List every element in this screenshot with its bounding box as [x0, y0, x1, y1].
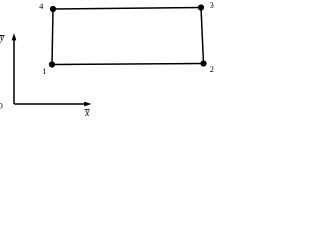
node 2 dot [200, 60, 206, 66]
node 4 dot [50, 6, 56, 12]
svg-text:2: 2 [210, 64, 214, 74]
y-bar overbar [0, 35, 5, 37]
svg-text:0: 0 [0, 100, 3, 110]
wire edge 3-2 (right) [201, 8, 204, 64]
x-bar overbar [85, 109, 90, 111]
wire edge 1-4 (left) [52, 9, 53, 65]
x axis arrowhead [84, 102, 91, 107]
svg-text:4: 4 [39, 1, 44, 11]
wire edge 4-3 (top) [53, 8, 201, 10]
svg-text:3: 3 [210, 0, 214, 10]
y axis line [13, 40, 15, 105]
y axis arrowhead [12, 33, 17, 40]
wire edge 2-1 (bottom) [52, 64, 204, 65]
svg-text:1: 1 [42, 66, 46, 76]
node 3 dot [198, 4, 204, 10]
x axis line [14, 103, 86, 105]
node 1 dot [49, 61, 55, 67]
svg-text:y: y [0, 33, 5, 44]
